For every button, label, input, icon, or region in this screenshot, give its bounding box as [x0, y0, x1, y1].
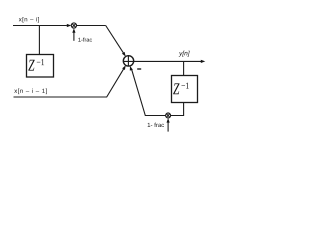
label Z^-1 (left)	[28, 60, 34, 71]
delay block Z^-1 (left)	[27, 55, 54, 78]
wire: diagonal from top line into adder	[106, 26, 124, 54]
node label y[n]	[179, 51, 190, 57]
coefficient input arrow 1-frac (top)	[73, 32, 75, 41]
wire: top line continues to bend	[77, 25, 106, 27]
wire: branch down to left delay	[38, 26, 40, 55]
coefficient input arrow 1-frac (bottom)	[167, 121, 169, 131]
multiplier M1 (top, 1-frac)	[71, 23, 76, 28]
multiplier M2 (bottom, 1-frac)	[166, 113, 171, 118]
wire: feedback horizontal then diagonal up to adder	[132, 69, 166, 115]
label 1-frac (top)	[78, 38, 92, 42]
arrowhead output	[201, 60, 206, 63]
label Z^-1 (right)	[173, 83, 179, 94]
summing junction	[123, 56, 133, 66]
wire: x[n-i-1] input line	[14, 68, 125, 97]
node label x[n-i-1]	[14, 88, 47, 94]
wire: branch down to right delay	[183, 61, 185, 75]
arrowhead into adder (from x[n-i-1])	[122, 65, 126, 70]
delay block Z^-1 (right)	[172, 76, 198, 103]
arrowhead into adder (from top)	[122, 52, 126, 57]
node label x[n-i]	[19, 17, 39, 23]
minus sign at feedback input	[137, 68, 141, 70]
wire: feedback from right delay bottom	[171, 103, 184, 116]
wire: output line y[n]	[134, 60, 201, 62]
label 1-frac (bottom)	[148, 123, 164, 127]
arrowhead into multiplier M1	[67, 24, 72, 27]
wire: x[n-i] input line	[13, 25, 67, 27]
arrowhead into adder (feedback, minus input)	[130, 66, 133, 71]
